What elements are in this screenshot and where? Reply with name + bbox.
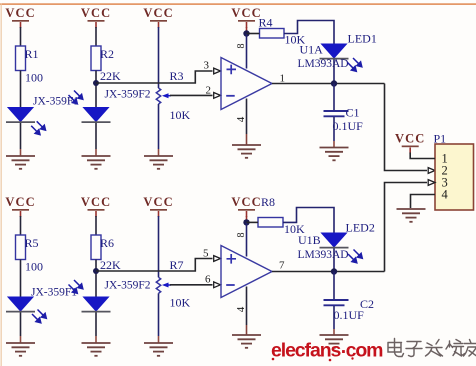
pin 2 arrowhead xyxy=(214,93,221,99)
wire VCC to R6 xyxy=(95,216,97,235)
wire D3 to ground xyxy=(20,313,22,337)
svg-text:3: 3 xyxy=(204,60,210,72)
ground (R1 column) xyxy=(6,156,35,169)
power VCC (P1) xyxy=(395,131,425,153)
wire net R2 node to U1A pin3 xyxy=(96,71,213,83)
svg-text:R8: R8 xyxy=(261,195,275,209)
svg-text:6: 6 xyxy=(205,274,211,286)
svg-text:R6: R6 xyxy=(100,236,114,250)
wire VCC to R3 pot xyxy=(158,27,160,88)
svg-text:5: 5 xyxy=(203,248,209,260)
svg-text:4: 4 xyxy=(442,188,449,202)
wire R1 to D1 xyxy=(20,71,22,108)
wire C1 to ground xyxy=(333,117,335,141)
ground (R6 column) xyxy=(82,343,111,356)
resistor R1 xyxy=(16,46,26,71)
ground (R5 column) xyxy=(6,343,35,356)
resistor R2 xyxy=(91,46,101,71)
wire VCC to R1 xyxy=(20,27,22,46)
svg-text:4: 4 xyxy=(235,306,247,312)
svg-text:8: 8 xyxy=(236,233,247,238)
电子发烧友 text xyxy=(388,339,476,357)
wire VCC to R5 xyxy=(20,216,22,235)
power VCC (U1B pin8) xyxy=(231,195,261,217)
wire R7 wiper to U1B pin6 xyxy=(170,284,213,286)
capacitor C1 xyxy=(324,111,349,116)
wire D2 to ground xyxy=(95,123,97,149)
ground (R7 column) xyxy=(144,343,173,356)
ground (R3 column) xyxy=(144,156,173,169)
incident arrows D2 xyxy=(69,91,83,104)
ground (U1A pin4) xyxy=(232,145,261,158)
capacitor C2 xyxy=(324,300,349,305)
wire U1B pin4 xyxy=(246,287,248,326)
svg-text:R7: R7 xyxy=(170,258,184,272)
svg-text:R4: R4 xyxy=(259,16,273,30)
LED1 xyxy=(320,44,349,59)
wire R6 to D4 xyxy=(95,260,97,298)
sheet border top line xyxy=(0,3,476,4)
svg-text:0.1UF: 0.1UF xyxy=(334,308,365,322)
wire pin8 (U1B) xyxy=(246,222,248,256)
minus sign U1B xyxy=(226,284,235,286)
emission arrows D3 xyxy=(32,310,46,323)
svg-text:elecfans.com: elecfans.com xyxy=(271,336,383,362)
logo droplet dots xyxy=(272,357,354,361)
LED2 xyxy=(320,233,349,248)
resistor R8 xyxy=(258,218,283,228)
svg-text:10K: 10K xyxy=(170,108,191,122)
pin 3 arrowhead xyxy=(214,68,221,74)
power VCC (R5 column) xyxy=(5,195,35,217)
ground (P1 pin4) xyxy=(397,209,426,222)
pin 6 arrowhead xyxy=(214,282,221,288)
svg-text:LM393AD: LM393AD xyxy=(298,58,349,70)
wire VCC to node xyxy=(246,27,248,34)
wire R2 to D2 xyxy=(95,71,97,108)
node junction output/LED2/C2 xyxy=(331,268,337,274)
power VCC (R2 column) xyxy=(81,6,111,28)
photodiode D3 emitter xyxy=(6,297,35,312)
emission arrows D1 xyxy=(31,121,45,134)
svg-text:7: 7 xyxy=(279,260,285,272)
potentiometer R7 xyxy=(156,277,171,293)
wire net R6 node to U1B pin5 xyxy=(96,259,213,272)
node junction output/LED1/C1 xyxy=(331,80,337,86)
svg-text:JX-359F2: JX-359F2 xyxy=(105,280,151,292)
wire pin8 xyxy=(246,34,248,69)
wire R4 to LED1 anode xyxy=(284,21,334,45)
wire U1B output pin7 xyxy=(272,271,385,273)
pin 5 arrowhead xyxy=(214,256,221,262)
svg-text:LED2: LED2 xyxy=(346,221,375,235)
incident arrows D4 xyxy=(69,280,83,293)
power VCC (U1A pin8) xyxy=(231,6,261,28)
wire output bus2 to P1 pin3 xyxy=(385,183,428,272)
wire U1A output pin1 xyxy=(272,83,385,85)
wire node to C2 xyxy=(333,272,335,300)
svg-text:LED1: LED1 xyxy=(348,32,377,46)
P1 pin2 arrowhead xyxy=(428,168,435,174)
wire R3 bottom to ground xyxy=(158,104,160,149)
svg-text:R3: R3 xyxy=(170,69,184,83)
potentiometer R3 xyxy=(156,88,171,104)
sheet border left line xyxy=(1,3,2,366)
svg-text:JX-359F1: JX-359F1 xyxy=(33,96,79,108)
wire U1A pin4 xyxy=(246,99,248,135)
wire R5 to D3 xyxy=(20,260,22,298)
svg-text:8: 8 xyxy=(236,44,247,49)
wire VCC to R7 pot xyxy=(158,216,160,277)
wire D4 to ground xyxy=(95,313,97,337)
ground (U1B pin4) xyxy=(232,335,261,348)
wire VCC to node (U1B) xyxy=(246,216,248,222)
emission arrows LED1 xyxy=(348,58,362,71)
svg-text:4: 4 xyxy=(235,116,247,122)
op-amp U1A xyxy=(221,58,272,110)
op-amp U1B xyxy=(221,246,272,298)
ground (C2) xyxy=(320,335,349,348)
power VCC (R6 column) xyxy=(81,195,111,217)
plus sign U1A xyxy=(227,65,237,75)
svg-text:JX-359F2: JX-359F2 xyxy=(105,89,151,101)
svg-text:LM393AD: LM393AD xyxy=(298,249,349,261)
svg-text:100: 100 xyxy=(25,260,43,274)
photodiode D4 receiver xyxy=(82,297,111,312)
wire LED2 to output node xyxy=(333,249,335,272)
wire LED1 to output node xyxy=(333,60,335,84)
svg-text:100: 100 xyxy=(25,71,43,85)
emission arrows LED2 xyxy=(348,250,362,263)
node junction pin8/R8 xyxy=(243,219,249,225)
svg-text:10K: 10K xyxy=(170,296,191,310)
photodiode D1 emitter xyxy=(6,108,35,123)
resistor R5 xyxy=(16,235,26,260)
svg-text:22K: 22K xyxy=(100,69,121,83)
wire D1 to ground xyxy=(20,123,22,149)
svg-text:1: 1 xyxy=(280,73,286,85)
wire P1 pin4 to ground xyxy=(411,195,436,209)
svg-text:R1: R1 xyxy=(25,47,39,61)
power VCC (R1 column) xyxy=(5,6,35,28)
wire R8 to LED2 anode xyxy=(283,208,334,234)
wire C2 to ground xyxy=(333,306,335,329)
svg-text:JX-359F1: JX-359F1 xyxy=(31,287,77,299)
connector P1 xyxy=(435,144,474,210)
svg-text:C1: C1 xyxy=(346,106,360,120)
photodiode D2 receiver xyxy=(82,108,111,123)
svg-text:10K: 10K xyxy=(284,222,305,236)
node junction under R2 xyxy=(93,80,99,86)
svg-text:R2: R2 xyxy=(100,47,114,61)
wire VCC to R2 xyxy=(95,27,97,46)
wire node to R8 xyxy=(247,221,259,223)
svg-text:R5: R5 xyxy=(25,236,39,250)
power VCC (R3 column) xyxy=(143,6,173,28)
power VCC (R7 column) xyxy=(143,195,173,217)
wire R7 bottom to ground xyxy=(158,293,160,336)
minus sign U1A xyxy=(226,95,235,97)
wire VCC to P1 pin1 xyxy=(410,153,435,159)
svg-text:10K: 10K xyxy=(285,33,306,47)
node junction pin8/R4 xyxy=(243,30,249,36)
resistor R6 xyxy=(91,235,101,260)
P1 pin3 arrowhead xyxy=(428,180,435,186)
resistor R4 xyxy=(260,29,285,39)
svg-text:22K: 22K xyxy=(100,258,121,272)
svg-text:2: 2 xyxy=(206,85,212,97)
svg-text:0.1UF: 0.1UF xyxy=(333,119,364,133)
node junction under R6 xyxy=(93,268,99,274)
ground (R2 column) xyxy=(82,156,111,169)
wire R3 wiper to U1A pin2 xyxy=(170,94,213,96)
wire node to C1 xyxy=(333,84,335,111)
ground (C1) xyxy=(320,148,349,161)
plus sign U1B xyxy=(227,254,237,264)
wire output bus to P1 pin2 xyxy=(385,84,428,171)
wire node to R4 xyxy=(247,33,260,35)
svg-text:P1: P1 xyxy=(434,132,447,146)
